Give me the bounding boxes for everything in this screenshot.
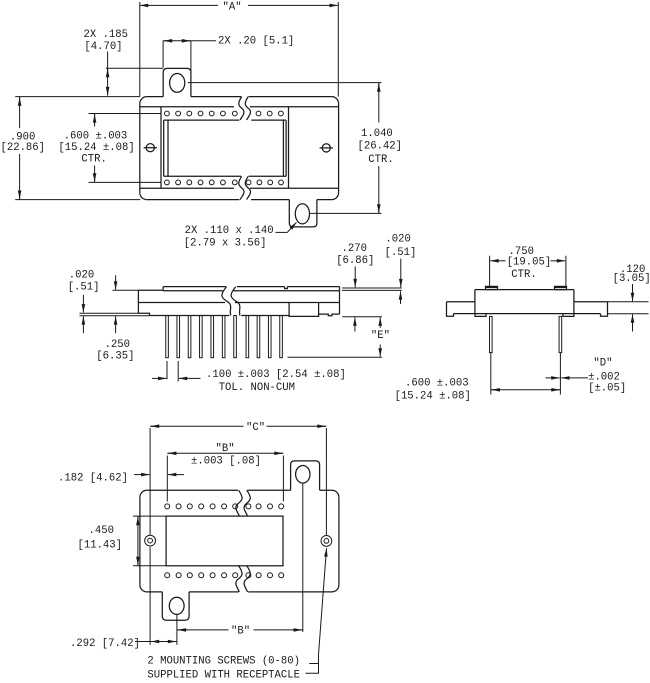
- svg-text:[.51]: [.51]: [385, 247, 417, 259]
- svg-text:[±.05]: [±.05]: [588, 382, 626, 394]
- svg-text:[.51]: [.51]: [68, 281, 100, 293]
- svg-text:.292 [7.42]: .292 [7.42]: [70, 638, 140, 650]
- side view break lines: [222, 287, 240, 316]
- svg-text:TOL. NON-CUM: TOL. NON-CUM: [219, 382, 295, 394]
- svg-text:2 MOUNTING SCREWS (0-80): 2 MOUNTING SCREWS (0-80): [147, 655, 300, 667]
- svg-text:[3.05]: [3.05]: [613, 273, 650, 285]
- left mounting screw (bottom view): [145, 535, 156, 546]
- bottom-left tab oval: [169, 597, 184, 614]
- side view body outline: [138, 287, 339, 317]
- top mounting tab (top view): [163, 68, 191, 96]
- socket body outline (top view): [140, 97, 339, 200]
- lower rail line: [140, 187, 339, 189]
- svg-text:[2.79 x 3.56]: [2.79 x 3.56]: [184, 237, 267, 249]
- svg-text:[4.70]: [4.70]: [84, 41, 122, 53]
- svg-text:"C": "C": [246, 422, 265, 434]
- break lines upper band (bottom view): [236, 490, 250, 516]
- bottom row contact holes: [165, 180, 284, 185]
- end view body: [447, 286, 608, 316]
- bottom view top-right tab: [291, 461, 320, 490]
- svg-text:.270: .270: [342, 243, 367, 255]
- svg-text:[22.86]: [22.86]: [1, 142, 46, 154]
- svg-text:"D": "D": [593, 357, 612, 369]
- svg-text:2X .185: 2X .185: [84, 29, 129, 41]
- svg-text:CTR.: CTR.: [81, 153, 106, 165]
- right mounting screw (bottom view): [321, 536, 332, 547]
- upper rail line: [140, 106, 339, 108]
- svg-text:.020: .020: [69, 270, 94, 282]
- svg-text:.100 ±.003 [2.54 ±.08]: .100 ±.003 [2.54 ±.08]: [206, 369, 346, 381]
- top row holes (bottom view): [165, 504, 284, 509]
- svg-text:.600 ±.003: .600 ±.003: [64, 130, 128, 142]
- svg-text:CTR.: CTR.: [368, 154, 393, 166]
- svg-text:[26.42]: [26.42]: [358, 140, 403, 152]
- bottom view body outline: [140, 490, 339, 592]
- dimension .250 body height (left): [113, 275, 139, 333]
- bottom view bottom-left tab: [162, 592, 189, 620]
- svg-text:±.003 [.08]: ±.003 [.08]: [191, 455, 261, 467]
- svg-text:.182 [4.62]: .182 [4.62]: [58, 472, 128, 484]
- svg-text:.020: .020: [385, 234, 410, 246]
- right screw (slot head): [320, 144, 333, 152]
- svg-text:.450: .450: [89, 525, 114, 537]
- right end wall boundary: [288, 107, 290, 189]
- top row contact holes: [165, 111, 284, 116]
- svg-text:"B": "B": [231, 626, 250, 638]
- bottom tab oval hole: [295, 204, 309, 224]
- dimension E pin length: [288, 317, 383, 358]
- mounting screws leader note: [306, 548, 327, 673]
- left end wall boundary: [160, 107, 162, 189]
- svg-text:1.040: 1.040: [361, 128, 393, 140]
- bottom mounting tab (top view): [289, 200, 317, 227]
- svg-text:.250: .250: [105, 339, 130, 351]
- svg-text:SUPPLIED WITH RECEPTACLE: SUPPLIED WITH RECEPTACLE: [147, 670, 300, 682]
- break lines upper band: [239, 97, 251, 120]
- break lines lower band: [239, 176, 251, 199]
- svg-text:[6.86]: [6.86]: [336, 255, 374, 267]
- cavity opening (bottom view): [166, 516, 283, 566]
- svg-text:2X .20 [5.1]: 2X .20 [5.1]: [218, 35, 294, 47]
- dimension 2X .20 tab width: [163, 41, 216, 71]
- dimension .100 pin pitch: [152, 361, 201, 382]
- break lines lower band (bottom view): [236, 566, 250, 592]
- top-right tab oval: [296, 466, 310, 484]
- center cavity opening (double-lined): [164, 120, 286, 176]
- svg-text:[15.24 ±.08]: [15.24 ±.08]: [395, 390, 471, 402]
- dimension A overall length: [140, 2, 338, 97]
- bottom row holes (bottom view): [165, 573, 284, 578]
- svg-text:CTR.: CTR.: [511, 269, 536, 281]
- top tab oval hole: [170, 74, 185, 93]
- svg-text:[6.35]: [6.35]: [96, 350, 134, 362]
- svg-text:.600 ±.003: .600 ±.003: [405, 377, 469, 389]
- svg-text:[15.24 ±.08]: [15.24 ±.08]: [58, 142, 134, 154]
- side view pins: [166, 316, 283, 358]
- svg-text:[11.43]: [11.43]: [78, 539, 123, 551]
- svg-text:2X .110 x .140: 2X .110 x .140: [185, 225, 274, 237]
- end view pins: [490, 316, 562, 394]
- side view seam lines: [138, 291, 339, 303]
- left screw (slot head): [144, 144, 157, 152]
- svg-text:"A": "A": [223, 1, 242, 13]
- svg-text:"E": "E": [371, 330, 390, 342]
- svg-text:[19.05]: [19.05]: [507, 257, 552, 269]
